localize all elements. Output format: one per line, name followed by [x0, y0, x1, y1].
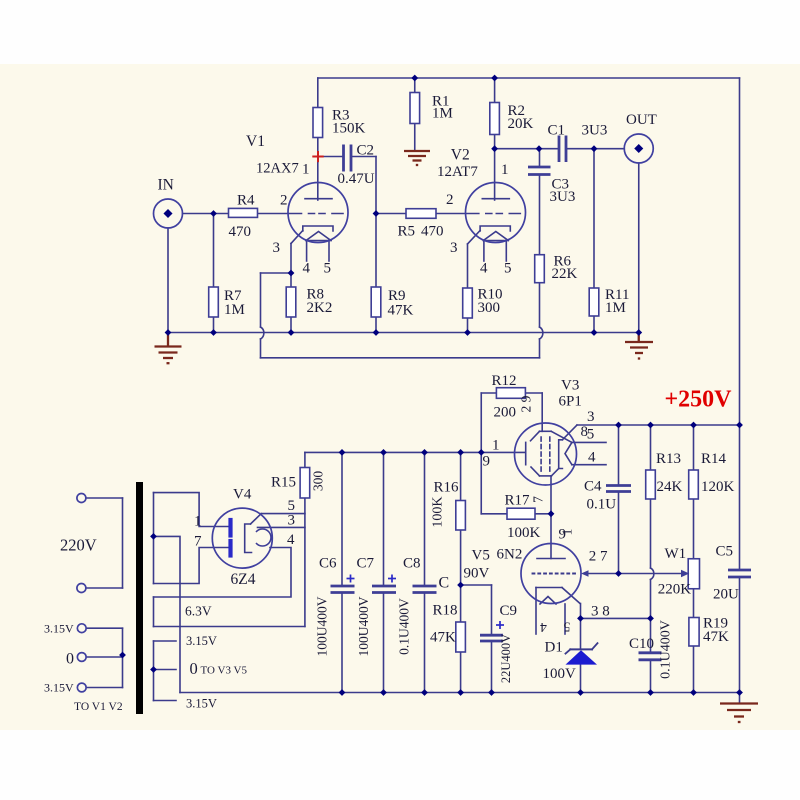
svg-text:1: 1 — [560, 529, 575, 536]
svg-text:+250V: +250V — [665, 387, 733, 413]
svg-text:D1: D1 — [545, 640, 563, 656]
svg-text:R16: R16 — [434, 480, 460, 496]
svg-text:470: 470 — [229, 224, 252, 240]
svg-text:20K: 20K — [508, 116, 534, 132]
svg-text:V1: V1 — [246, 133, 265, 150]
svg-text:0.1U: 0.1U — [587, 497, 617, 513]
svg-text:3: 3 — [288, 513, 296, 529]
svg-text:47K: 47K — [703, 629, 729, 645]
svg-text:2: 2 — [446, 192, 454, 208]
svg-text:C9: C9 — [500, 603, 518, 619]
svg-text:V4: V4 — [233, 487, 252, 503]
svg-text:100U400V: 100U400V — [315, 596, 330, 656]
svg-text:9: 9 — [483, 454, 491, 470]
svg-text:3: 3 — [450, 240, 458, 256]
svg-text:100V: 100V — [543, 666, 577, 682]
svg-text:3.15V: 3.15V — [44, 681, 74, 695]
svg-text:C5: C5 — [716, 544, 734, 560]
svg-text:120K: 120K — [701, 479, 735, 495]
svg-text:6.3V: 6.3V — [185, 604, 212, 619]
svg-text:4: 4 — [480, 261, 488, 277]
svg-text:R13: R13 — [656, 451, 681, 467]
svg-text:1M: 1M — [605, 300, 626, 316]
svg-text:12AX7: 12AX7 — [256, 161, 299, 177]
svg-text:6P1: 6P1 — [559, 394, 582, 410]
svg-text:4: 4 — [303, 261, 311, 277]
svg-text:2 9: 2 9 — [519, 395, 534, 412]
svg-text:C: C — [439, 575, 450, 592]
svg-text:47K: 47K — [430, 630, 456, 646]
svg-text:W1: W1 — [665, 546, 687, 562]
svg-text:1: 1 — [492, 438, 500, 454]
svg-text:2 7: 2 7 — [589, 549, 608, 565]
svg-text:3.15V: 3.15V — [186, 634, 217, 648]
svg-text:3.15V: 3.15V — [44, 622, 74, 636]
svg-text:47K: 47K — [388, 303, 414, 319]
svg-text:TO V3 V5: TO V3 V5 — [201, 665, 248, 677]
svg-text:C2: C2 — [357, 143, 375, 159]
svg-text:3U3: 3U3 — [550, 189, 576, 205]
svg-text:6N2: 6N2 — [497, 547, 523, 563]
svg-text:1M: 1M — [432, 106, 453, 122]
svg-text:C1: C1 — [548, 123, 566, 139]
svg-text:5: 5 — [587, 427, 595, 443]
svg-text:4: 4 — [287, 532, 295, 548]
svg-text:4: 4 — [588, 450, 596, 466]
svg-text:0: 0 — [190, 659, 198, 678]
svg-text:5: 5 — [563, 620, 570, 635]
svg-text:300: 300 — [311, 471, 326, 492]
svg-text:7: 7 — [531, 496, 546, 503]
svg-text:0.1U400V: 0.1U400V — [397, 598, 412, 655]
svg-text:20U: 20U — [713, 587, 739, 603]
svg-text:C6: C6 — [319, 556, 337, 572]
svg-text:200: 200 — [494, 405, 517, 421]
svg-text:R4: R4 — [237, 193, 255, 209]
svg-text:100U400V: 100U400V — [356, 596, 371, 656]
svg-text:22K: 22K — [552, 266, 578, 282]
svg-text:R17: R17 — [505, 493, 531, 509]
svg-text:V3: V3 — [561, 378, 579, 394]
svg-text:V2: V2 — [451, 147, 470, 164]
svg-text:7: 7 — [194, 534, 202, 550]
svg-text:2K2: 2K2 — [307, 300, 333, 316]
svg-text:V5: V5 — [472, 548, 490, 564]
svg-text:0.47U: 0.47U — [338, 171, 375, 187]
svg-text:IN: IN — [158, 177, 174, 194]
svg-text:C8: C8 — [403, 556, 421, 572]
svg-text:470: 470 — [421, 224, 444, 240]
svg-text:OUT: OUT — [626, 112, 657, 128]
svg-text:C7: C7 — [357, 556, 375, 572]
svg-text:3: 3 — [273, 240, 281, 256]
svg-text:5: 5 — [324, 261, 332, 277]
svg-text:C4: C4 — [584, 479, 602, 495]
svg-text:220K: 220K — [658, 582, 692, 598]
svg-text:220V: 220V — [60, 536, 97, 555]
svg-text:100K: 100K — [507, 525, 541, 541]
svg-text:4: 4 — [540, 620, 547, 635]
svg-text:R5: R5 — [398, 224, 416, 240]
svg-text:22U400V: 22U400V — [499, 634, 513, 683]
svg-text:3U3: 3U3 — [582, 123, 608, 139]
svg-text:24K: 24K — [657, 479, 683, 495]
svg-text:0.1U400V: 0.1U400V — [659, 620, 674, 679]
svg-text:R12: R12 — [492, 373, 517, 389]
svg-text:3: 3 — [587, 409, 595, 425]
svg-text:R18: R18 — [433, 603, 458, 619]
svg-text:1M: 1M — [224, 302, 245, 318]
svg-text:1: 1 — [194, 514, 202, 530]
svg-text:6Z4: 6Z4 — [231, 571, 256, 588]
svg-text:0: 0 — [66, 651, 74, 668]
svg-text:3 8: 3 8 — [591, 604, 610, 620]
svg-text:1: 1 — [501, 162, 509, 178]
svg-text:R15: R15 — [271, 475, 296, 491]
svg-text:5: 5 — [504, 261, 512, 277]
svg-text:300: 300 — [478, 300, 501, 316]
svg-text:90V: 90V — [464, 566, 490, 582]
svg-text:12AT7: 12AT7 — [437, 164, 478, 180]
svg-text:1: 1 — [302, 162, 310, 178]
svg-text:2: 2 — [280, 193, 288, 209]
svg-text:150K: 150K — [332, 121, 366, 137]
svg-text:3.15V: 3.15V — [186, 697, 217, 711]
svg-text:TO V1 V2: TO V1 V2 — [74, 701, 123, 713]
svg-text:C10: C10 — [629, 636, 654, 652]
svg-text:R14: R14 — [701, 451, 727, 467]
svg-text:100K: 100K — [431, 496, 446, 527]
